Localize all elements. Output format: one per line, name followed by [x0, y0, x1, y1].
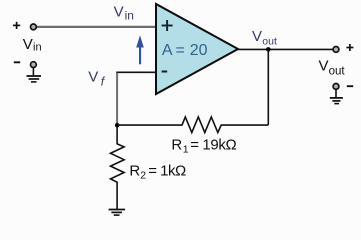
svg-text:A: A — [162, 42, 173, 59]
wire feedback vertical — [267, 49, 269, 125]
svg-text:V: V — [114, 4, 124, 21]
svg-text:R: R — [129, 162, 140, 179]
svg-text:V: V — [252, 28, 262, 45]
svg-text:= 19kΩ: = 19kΩ — [190, 137, 236, 154]
terminal input + — [31, 24, 37, 30]
terminal input - — [31, 62, 37, 68]
resistor R1 — [118, 117, 268, 133]
svg-text:in: in — [33, 42, 42, 54]
junction node output — [266, 47, 271, 52]
op-amp U1 — [156, 4, 238, 94]
ground (output) — [330, 90, 343, 104]
svg-text:in: in — [125, 9, 134, 23]
junction node Vf — [115, 123, 120, 128]
ground (input) — [27, 68, 42, 82]
label + (output) — [346, 44, 353, 51]
svg-text:20: 20 — [190, 42, 208, 59]
svg-text:1: 1 — [183, 144, 189, 156]
svg-text:V: V — [318, 58, 328, 75]
svg-text:V: V — [23, 36, 33, 53]
svg-text:out: out — [262, 36, 277, 48]
op-amp + input marker — [162, 20, 173, 31]
wire input + (gray) — [37, 26, 157, 28]
label - (output) — [347, 85, 353, 87]
label - (input) — [14, 61, 20, 63]
svg-text:2: 2 — [140, 170, 146, 182]
label + (input) — [13, 22, 20, 29]
svg-text:f: f — [101, 74, 106, 88]
wire output — [238, 48, 333, 50]
feedback arrow (blue) — [136, 35, 144, 64]
wire vertical Vf (gray) — [116, 73, 118, 125]
ground (R2) — [109, 210, 126, 216]
svg-text:out: out — [329, 65, 346, 77]
svg-text:= 1kΩ: = 1kΩ — [148, 162, 186, 179]
op-amp - input marker — [162, 71, 168, 73]
terminal output + — [333, 47, 339, 53]
svg-text:=: = — [176, 42, 185, 59]
svg-text:R: R — [171, 137, 182, 154]
wire - input (black) — [116, 71, 156, 73]
terminal output - — [333, 84, 339, 90]
resistor R2 — [111, 127, 125, 209]
svg-text:V: V — [88, 68, 98, 85]
